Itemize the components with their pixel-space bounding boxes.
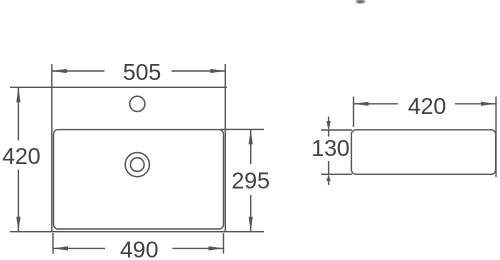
svg-text:505: 505: [123, 59, 161, 85]
svg-text:130: 130: [311, 135, 349, 161]
svg-text:490: 490: [120, 236, 158, 260]
svg-text:420: 420: [408, 93, 446, 119]
svg-text:420: 420: [2, 143, 40, 169]
svg-text:295: 295: [232, 168, 270, 194]
